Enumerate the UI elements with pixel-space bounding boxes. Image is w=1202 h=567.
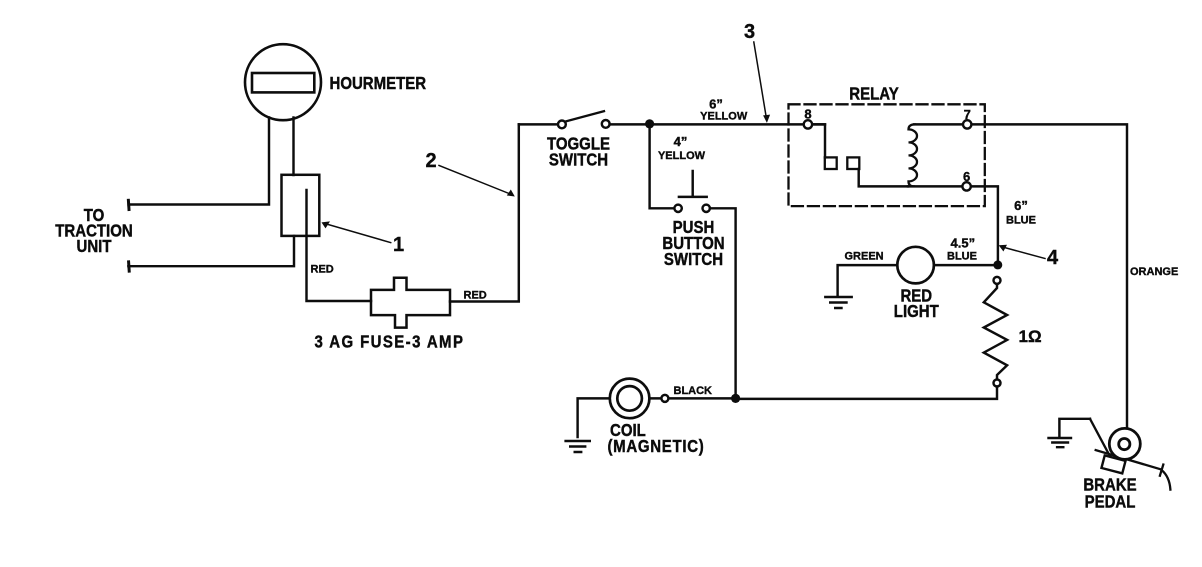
label 4.5 blue — [947, 236, 977, 263]
relay dashed box — [789, 104, 985, 206]
wire resistor bottom to coil junction — [736, 387, 997, 399]
svg-text:HOURMETER: HOURMETER — [330, 74, 427, 93]
svg-text:2: 2 — [426, 150, 437, 172]
svg-text:1Ω: 1Ω — [1019, 327, 1042, 346]
resistor R1 1 ohm — [984, 277, 1007, 387]
svg-text:BLACK: BLACK — [674, 385, 713, 397]
node dot blue junction — [993, 260, 1002, 269]
fuse holder — [371, 278, 450, 328]
relay pin labels — [804, 107, 970, 184]
wire hourmeter left stem to traction top — [129, 118, 269, 205]
wire fuse right up to toggle — [450, 124, 519, 301]
svg-text:6”: 6” — [1014, 198, 1028, 213]
brake pedal ground — [1059, 419, 1090, 437]
svg-text:8: 8 — [804, 107, 811, 122]
wire coil top to pin 7 and orange drop — [914, 124, 1127, 428]
svg-text:4: 4 — [1047, 247, 1059, 269]
toggle switch pole — [558, 121, 566, 129]
svg-text:4”: 4” — [674, 134, 688, 149]
push button pole — [674, 205, 681, 212]
svg-text:RED: RED — [464, 290, 487, 302]
callout line 3 — [754, 42, 766, 117]
svg-text:(MAGNETIC): (MAGNETIC) — [608, 437, 705, 456]
red light lamp — [897, 247, 934, 284]
svg-text:BLUE: BLUE — [1006, 215, 1036, 227]
callout line 1 — [326, 224, 391, 243]
relay contact square right — [847, 157, 859, 169]
callout arrowhead 4 — [999, 245, 1007, 252]
relay contact square left — [825, 157, 837, 169]
coil terminal — [661, 395, 668, 402]
callout arrowhead 2 — [507, 190, 515, 197]
coil magnetic label — [608, 421, 705, 456]
toggle switch throw — [602, 120, 610, 128]
coil magnetic wire left and ground — [578, 398, 610, 437]
brake pedal toe stop — [1160, 465, 1171, 490]
svg-text:SWITCH: SWITCH — [664, 250, 723, 269]
toggle switch lever — [565, 111, 604, 121]
junction dot toggle/push — [645, 119, 654, 128]
wire hourmeter right stem — [292, 118, 294, 176]
svg-text:UNIT: UNIT — [77, 237, 112, 256]
wire red from block to fuse — [307, 190, 372, 301]
coil magnetic body — [610, 379, 650, 419]
brake pedal label — [1083, 476, 1137, 512]
svg-text:RED: RED — [311, 264, 334, 276]
callout arrowhead 1 — [322, 221, 331, 228]
traction unit label — [55, 206, 132, 256]
svg-text:RELAY: RELAY — [849, 85, 899, 104]
green wire and ground — [838, 265, 898, 296]
svg-text:6”: 6” — [709, 97, 723, 112]
svg-text:ORANGE: ORANGE — [1130, 266, 1178, 278]
ground coil — [566, 441, 590, 452]
arrow tick traction top — [127, 200, 131, 209]
connector block 1 — [282, 175, 320, 236]
label 4 inch yellow — [658, 134, 706, 162]
callout line 2 — [439, 166, 511, 195]
arrow tick traction bottom — [127, 262, 131, 271]
push button plunger — [679, 171, 707, 197]
toggle switch label — [547, 135, 610, 170]
push button throw — [703, 205, 710, 212]
red light label — [894, 287, 939, 322]
relay coil bottom wire to pin 6 — [908, 186, 998, 261]
svg-text:LIGHT: LIGHT — [894, 302, 939, 321]
wire coil to junction — [649, 397, 731, 399]
brake pedal pad — [1101, 455, 1125, 473]
svg-text:3 AG FUSE-3 AMP: 3 AG FUSE-3 AMP — [315, 332, 465, 351]
callout arrowhead 3 — [763, 115, 770, 123]
svg-text:1: 1 — [393, 234, 404, 256]
relay contact arm wire — [808, 124, 825, 157]
label 6 inch blue — [1006, 198, 1036, 227]
wire traction bottom — [128, 236, 294, 266]
wire red light to node — [934, 264, 998, 266]
svg-text:7: 7 — [964, 107, 971, 122]
ground green — [825, 297, 851, 308]
brake pedal lever — [1096, 450, 1162, 469]
wire push button to coil junction — [710, 208, 736, 398]
callout line 4 — [1003, 247, 1046, 259]
hourmeter body — [245, 44, 321, 120]
svg-text:YELLOW: YELLOW — [700, 111, 748, 123]
brake pedal roller — [1109, 428, 1140, 459]
relay pin 7 — [963, 120, 971, 128]
svg-text:SWITCH: SWITCH — [549, 150, 608, 169]
wire toggle switch feed — [519, 123, 558, 125]
junction dot coil wire — [731, 394, 740, 403]
svg-text:4.5”: 4.5” — [951, 236, 976, 251]
relay coil L1 — [909, 124, 918, 186]
svg-text:GREEN: GREEN — [845, 251, 884, 263]
wire top run toggle to orange drop — [610, 123, 825, 125]
ground brake bars — [1049, 438, 1072, 447]
svg-text:PEDAL: PEDAL — [1085, 493, 1136, 512]
svg-text:6: 6 — [963, 169, 970, 184]
relay contact drop wire — [859, 169, 908, 186]
push button switch label — [662, 218, 724, 269]
svg-text:BLUE: BLUE — [947, 251, 977, 263]
svg-text:3: 3 — [744, 21, 755, 43]
relay pin 6 — [962, 182, 970, 190]
wire junction down to push button — [650, 124, 675, 208]
label 6 inch yellow — [700, 97, 748, 123]
relay pin 8 — [804, 120, 812, 128]
brake pedal arm from ground — [1090, 419, 1110, 457]
svg-text:YELLOW: YELLOW — [658, 150, 706, 162]
